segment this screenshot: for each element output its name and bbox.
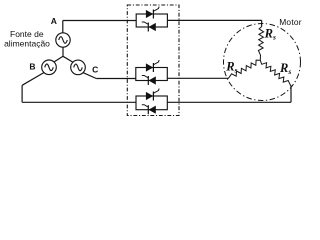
wire: riser to motor right terminal <box>290 86 292 103</box>
wire: neutral diagonal to source B <box>54 56 63 62</box>
motor dashed circle <box>224 24 301 101</box>
wire: module 1 output to motor corner <box>167 19 261 21</box>
svg-text:A: A <box>51 16 57 26</box>
wire: phase C diagonal from source C <box>83 73 96 79</box>
wire: phase B diagonal from source B <box>22 73 44 86</box>
stator winding Rs (left arm) <box>229 60 261 78</box>
thyristor T3 (module 2, top, right-pointing) <box>146 60 159 72</box>
thyristor T2 (module 1, bottom, left-pointing) <box>142 22 156 32</box>
wire: phase B bottom rail into module 3 <box>22 101 136 103</box>
wire: neutral diagonal to source C <box>63 56 73 62</box>
svg-text:Motor: Motor <box>279 17 302 27</box>
wire: drop into motor top terminal <box>261 20 263 26</box>
stator winding Rs (right arm) <box>260 60 291 85</box>
stator winding Rs (top arm) <box>258 27 263 61</box>
wire: module 2 output to motor left terminal <box>167 77 228 79</box>
wire: module 3 output bottom rail <box>167 101 291 103</box>
SCR module 3 loop <box>136 96 167 110</box>
soft-starter dashed enclosure <box>127 5 179 116</box>
wire: neutral stem below source A <box>62 47 64 56</box>
thyristor T5 (module 3, top, right-pointing) <box>146 89 159 101</box>
thyristor T6 (module 3, bottom, left-pointing) <box>142 105 156 115</box>
wire: phase B vertical drop <box>21 85 23 102</box>
AC source C <box>71 60 86 75</box>
label: Fonte de alimentação <box>4 29 50 48</box>
wire: riser from source A to top rail <box>62 21 64 33</box>
AC source B <box>42 60 57 75</box>
svg-text:B: B <box>29 62 35 72</box>
SCR module 2 loop <box>136 68 168 81</box>
wire: phase A top rail into module 1 <box>63 20 136 22</box>
AC source A <box>56 33 70 47</box>
wire: phase C rail into module 2 <box>96 78 136 80</box>
svg-text:C: C <box>92 65 98 75</box>
thyristor T1 (module 1, top, right-pointing) <box>146 7 159 19</box>
thyristor T4 (module 2, bottom, left-pointing) <box>142 76 156 86</box>
SCR module 1 loop <box>136 14 167 27</box>
svg-text:alimentação: alimentação <box>4 38 50 48</box>
